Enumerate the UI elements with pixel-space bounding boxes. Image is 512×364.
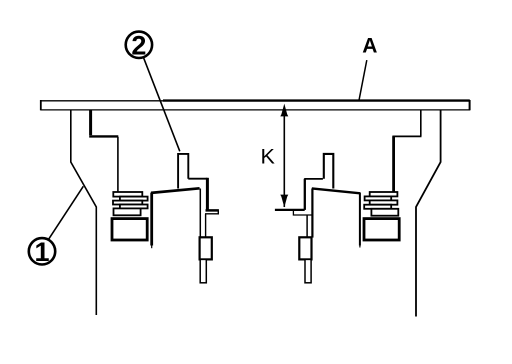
leader line 2 xyxy=(144,58,180,152)
K seat surface xyxy=(275,209,305,211)
dimension K line xyxy=(283,111,285,207)
left guide lower pin xyxy=(200,259,206,282)
right guide shaft xyxy=(311,189,313,238)
right hanger bracket xyxy=(420,110,422,136)
svg-text:2: 2 xyxy=(131,30,146,60)
right shim stack xyxy=(364,192,398,216)
left tube wall (item 1) xyxy=(71,110,97,315)
right guide lower pin xyxy=(305,259,311,282)
left guide foot xyxy=(206,209,219,212)
right lower block xyxy=(364,219,399,240)
left hanger bracket xyxy=(89,110,92,135)
left fork tine xyxy=(150,193,153,246)
svg-text:A: A xyxy=(362,35,377,58)
dimension K arrowhead top xyxy=(280,104,288,117)
left guide (item 2) tab xyxy=(178,154,188,189)
straightedge A body xyxy=(40,100,42,110)
callout circle 2 xyxy=(126,32,152,58)
left guide mid block xyxy=(200,237,212,259)
callout circle 1 xyxy=(29,238,55,264)
leader line 1 xyxy=(48,186,83,239)
left guide shoulder xyxy=(188,178,207,180)
left fork arm xyxy=(151,188,200,193)
right tube wall xyxy=(416,110,441,317)
dimension K arrowhead bottom xyxy=(280,195,288,208)
leader line A xyxy=(359,60,367,100)
left guide shaft xyxy=(199,189,201,238)
left shim stack xyxy=(113,192,148,215)
left lower block xyxy=(112,219,147,240)
left guide thick edge xyxy=(206,178,209,210)
right guide tab xyxy=(324,154,334,189)
svg-text:K: K xyxy=(261,145,276,169)
right fork tine xyxy=(359,193,361,246)
right guide shoulder xyxy=(304,178,323,180)
right guide thick edge xyxy=(304,179,306,210)
svg-text:1: 1 xyxy=(34,237,49,267)
right fork arm xyxy=(312,188,360,193)
right guide mid block xyxy=(299,237,311,259)
